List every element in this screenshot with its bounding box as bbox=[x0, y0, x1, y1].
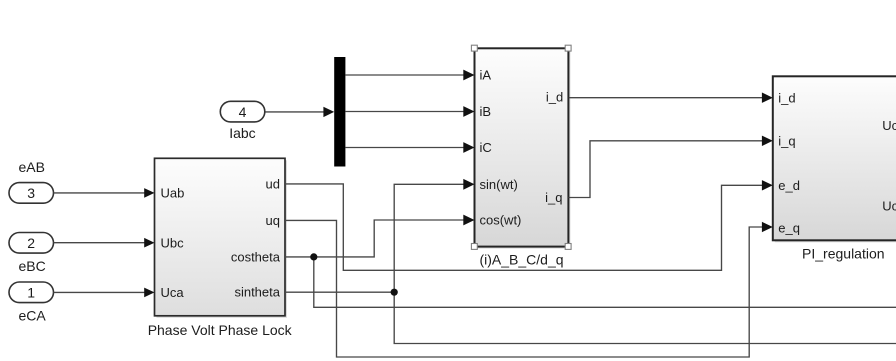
svg-text:3: 3 bbox=[27, 185, 35, 201]
svg-text:i_q: i_q bbox=[545, 190, 562, 205]
inport 2 bbox=[9, 233, 54, 254]
wire 2 to Ubc bbox=[54, 242, 147, 244]
inport 1 bbox=[9, 282, 54, 303]
wire Mux1 to iB bbox=[345, 111, 466, 113]
wire costheta branch off right bbox=[314, 257, 896, 307]
svg-text:Uab: Uab bbox=[161, 186, 185, 201]
svg-text:Ubc: Ubc bbox=[161, 235, 185, 250]
svg-text:(i)A_B_C/d_q: (i)A_B_C/d_q bbox=[479, 251, 563, 267]
wire ud to e_d bbox=[285, 184, 765, 270]
svg-text:Iabc: Iabc bbox=[229, 125, 255, 141]
arrowhead i_d bbox=[762, 93, 773, 103]
svg-text:e_d: e_d bbox=[778, 178, 800, 193]
wire sintheta trunk bbox=[285, 291, 394, 293]
wire 1 to Uca bbox=[54, 291, 147, 293]
junction sintheta bbox=[391, 289, 398, 296]
svg-text:uq: uq bbox=[266, 213, 280, 228]
svg-text:i_d: i_d bbox=[778, 91, 795, 106]
wire 3 to Uab bbox=[54, 192, 147, 194]
svg-text:i_q: i_q bbox=[778, 133, 795, 148]
svg-text:sin(wt): sin(wt) bbox=[480, 177, 518, 192]
svg-text:Phase Volt Phase Lock: Phase Volt Phase Lock bbox=[148, 322, 293, 338]
inport 4 bbox=[220, 101, 264, 122]
svg-text:eCA: eCA bbox=[19, 307, 47, 323]
arrowhead Uab bbox=[144, 188, 154, 198]
wire Mux1 to iA bbox=[345, 74, 466, 76]
arrowhead Mux1 in bbox=[323, 107, 334, 117]
block U3 PI_regulation bbox=[773, 76, 896, 242]
svg-text:eAB: eAB bbox=[19, 159, 45, 175]
svg-text:iC: iC bbox=[480, 140, 492, 155]
block U2 (i)A_B_C/d_q bbox=[475, 48, 571, 248]
arrowhead cos(wt) bbox=[463, 215, 474, 226]
arrowhead e_q bbox=[762, 222, 773, 232]
inport 3 bbox=[9, 183, 54, 204]
selection handle bottom-right bbox=[565, 244, 571, 250]
svg-text:e_q: e_q bbox=[778, 220, 800, 235]
svg-text:4: 4 bbox=[239, 104, 247, 120]
svg-text:cos(wt): cos(wt) bbox=[480, 213, 522, 228]
mux Mux1 bbox=[334, 57, 345, 167]
selection handle top-right bbox=[565, 45, 571, 51]
wire 4 to Mux1 bbox=[266, 111, 326, 113]
svg-text:iB: iB bbox=[480, 104, 492, 119]
wire sintheta to sin(wt) bbox=[394, 184, 466, 292]
svg-text:Ucq: Ucq bbox=[882, 199, 896, 214]
selection handle bottom-left bbox=[471, 244, 477, 250]
wire Mux1 to iC bbox=[345, 147, 466, 149]
wire i_q to i_q bbox=[568, 141, 764, 198]
arrowhead Uca bbox=[144, 288, 154, 298]
wire costheta to cos(wt) bbox=[285, 220, 466, 257]
arrowhead iA bbox=[463, 70, 474, 81]
arrowhead e_d bbox=[762, 180, 773, 190]
block U1 Phase Volt Phase Lock bbox=[155, 158, 288, 317]
wire uq off right bbox=[285, 220, 765, 357]
svg-text:iA: iA bbox=[480, 68, 492, 83]
svg-text:costheta: costheta bbox=[231, 249, 281, 264]
svg-text:Uca: Uca bbox=[161, 285, 185, 300]
arrowhead iC bbox=[463, 142, 474, 153]
wire sintheta branch off right bbox=[394, 292, 896, 343]
svg-text:ud: ud bbox=[266, 176, 280, 191]
arrowhead Ubc bbox=[144, 238, 154, 248]
arrowhead i_q bbox=[762, 136, 773, 146]
svg-text:1: 1 bbox=[27, 285, 35, 301]
wire i_d to i_d bbox=[569, 97, 765, 99]
arrowhead sin(wt) bbox=[463, 179, 474, 190]
selection handle top-left bbox=[471, 45, 477, 51]
svg-text:i_d: i_d bbox=[546, 90, 563, 105]
svg-text:eBC: eBC bbox=[19, 258, 46, 274]
svg-text:Ucd: Ucd bbox=[882, 118, 896, 133]
svg-text:sintheta: sintheta bbox=[234, 285, 280, 300]
svg-text:2: 2 bbox=[27, 235, 35, 251]
svg-text:PI_regulation: PI_regulation bbox=[802, 245, 885, 261]
arrowhead iB bbox=[463, 106, 474, 117]
junction costheta bbox=[310, 253, 317, 260]
